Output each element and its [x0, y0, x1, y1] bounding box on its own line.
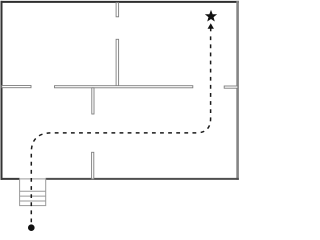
node goal star [206, 11, 216, 20]
wire top wall [1, 1, 240, 3]
node interior wall: upper mid vertical stub [92, 88, 94, 114]
node arrowhead pointing up [208, 23, 214, 28]
node interior wall: middle horizontal [55, 86, 193, 88]
wire stair tread 3 [20, 200, 46, 202]
wire arrow stem [210, 27, 212, 31]
wire bottom wall left segment [1, 178, 20, 180]
node start dot [28, 224, 35, 231]
node interior wall: right horizontal stub [224, 86, 238, 88]
wire right wall [236, 1, 239, 180]
node interior wall: left horizontal stub [2, 86, 31, 88]
wire left wall [1, 1, 3, 180]
node interior wall: top center stub [116, 3, 119, 17]
wire stair tread 1 [20, 190, 46, 192]
node interior wall: center vertical [116, 39, 119, 86]
wire bottom wall right segment [46, 178, 239, 180]
wire stair tread 2 [20, 195, 46, 197]
node staircase box [20, 179, 46, 206]
node interior wall: lower mid vertical stub [92, 152, 94, 179]
wire dashed route from start dot to arrow [31, 35, 210, 223]
